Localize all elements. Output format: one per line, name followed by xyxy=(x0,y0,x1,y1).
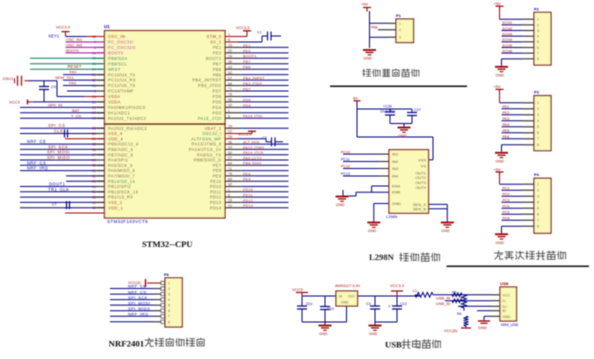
svg-text:NRF_IRQ: NRF_IRQ xyxy=(128,311,148,316)
svg-text:PB6/ADC_5: PB6/ADC_5 xyxy=(108,147,134,152)
svg-text:P4: P4 xyxy=(534,172,540,177)
svg-text:C27: C27 xyxy=(414,108,421,112)
svg-text:1: 1 xyxy=(228,188,230,192)
svg-text:NRF_CE: NRF_CE xyxy=(128,284,146,289)
svg-text:GND: GND xyxy=(341,301,349,305)
svg-text:SEN_B: SEN_B xyxy=(413,206,426,211)
svg-text:P3: P3 xyxy=(534,90,540,95)
svg-text:ECH5: ECH5 xyxy=(503,44,513,48)
svg-text:OUT4: OUT4 xyxy=(415,185,426,190)
svg-text:PD14: PD14 xyxy=(210,205,222,210)
svg-text:GND: GND xyxy=(478,325,487,330)
svg-text:GND: GND xyxy=(336,203,345,207)
svg-text:AMS1117-3.3V: AMS1117-3.3V xyxy=(335,284,361,288)
svg-text:2: 2 xyxy=(168,287,170,291)
svg-text:PA15_JTDI: PA15_JTDI xyxy=(198,116,222,121)
svg-text:15: 15 xyxy=(228,44,232,48)
svg-text:85: 85 xyxy=(228,177,232,181)
svg-text:43: 43 xyxy=(228,65,232,69)
svg-text:ALTFSSN_WP: ALTFSSN_WP xyxy=(191,136,222,141)
svg-text:SPI_MISO: SPI_MISO xyxy=(128,306,150,311)
svg-text:PA6/MISO_6: PA6/MISO_6 xyxy=(108,168,135,173)
svg-text:85: 85 xyxy=(228,98,232,102)
svg-text:C9: C9 xyxy=(51,85,56,89)
svg-text:VDD_4: VDD_4 xyxy=(108,136,123,141)
svg-text:SPI_CS: SPI_CS xyxy=(48,123,65,128)
svg-text:VCC3.3: VCC3.3 xyxy=(390,283,405,288)
svg-text:PC_OSC32O: PC_OSC32O xyxy=(108,45,136,50)
svg-text:PB8/SDIO_D: PB8/SDIO_D xyxy=(194,158,222,163)
svg-text:PE10: PE10 xyxy=(210,179,222,184)
svg-text:PC13/TAMP: PC13/TAMP xyxy=(108,89,134,94)
svg-text:8: 8 xyxy=(228,114,230,118)
svg-text:GND: GND xyxy=(496,159,505,163)
svg-text:GND: GND xyxy=(392,201,401,206)
svg-text:5: 5 xyxy=(537,207,539,211)
svg-text:GND: GND xyxy=(364,57,373,61)
svg-text:PD11: PD11 xyxy=(210,189,222,194)
svg-text:5: 5 xyxy=(537,40,539,44)
svg-text:71: 71 xyxy=(228,167,232,171)
svg-text:CLK: CLK xyxy=(54,129,63,134)
svg-text:GND: GND xyxy=(369,332,378,336)
svg-text:OSC_IN1: OSC_IN1 xyxy=(66,38,82,42)
svg-text:3: 3 xyxy=(537,113,539,117)
svg-text:5V: 5V xyxy=(353,96,358,101)
svg-text:+C26: +C26 xyxy=(383,105,392,109)
svg-text:3: 3 xyxy=(537,195,539,199)
svg-text:PD7: PD7 xyxy=(212,89,221,94)
svg-text:OSC_IN: OSC_IN xyxy=(108,34,125,39)
svg-text:2: 2 xyxy=(537,23,539,27)
svg-text:22u: 22u xyxy=(306,302,312,306)
svg-text:PD13: PD13 xyxy=(243,204,253,208)
svg-text:15: 15 xyxy=(228,124,232,128)
svg-text:6: 6 xyxy=(537,131,539,135)
svg-text:PA13/JTMS_8: PA13/JTMS_8 xyxy=(192,142,222,147)
svg-text:VBAT_1: VBAT_1 xyxy=(204,126,221,131)
svg-text:+5V: +5V xyxy=(361,2,369,7)
svg-text:PB7: PB7 xyxy=(213,61,222,66)
svg-text:BOOT1: BOOT1 xyxy=(243,55,257,59)
svg-text:BOOT0: BOOT0 xyxy=(108,50,124,55)
svg-text:PE5: PE5 xyxy=(503,129,510,133)
svg-text:PB5/ADC12_4: PB5/ADC12_4 xyxy=(108,142,139,147)
svg-text:PC10: PC10 xyxy=(341,150,350,154)
svg-text:NRF_CS: NRF_CS xyxy=(27,160,46,165)
svg-text:64: 64 xyxy=(228,82,232,86)
svg-text:VCC: VCC xyxy=(503,293,511,297)
svg-text:PC2: PC2 xyxy=(503,193,510,197)
svg-text:PA15 JTDI: PA15 JTDI xyxy=(243,115,262,119)
svg-text:OSC_IN2: OSC_IN2 xyxy=(66,43,82,47)
svg-text:RESET: RESET xyxy=(68,64,82,69)
svg-text:VCC5: VCC5 xyxy=(292,287,303,292)
svg-text:PB3_JTDO: PB3_JTDO xyxy=(198,83,222,88)
svg-text:8: 8 xyxy=(537,57,539,61)
svg-text:57: 57 xyxy=(228,156,232,160)
svg-text:1: 1 xyxy=(537,101,539,105)
svg-text:NRF_IRQ: NRF_IRQ xyxy=(27,166,49,171)
svg-text:NRST: NRST xyxy=(108,67,121,72)
svg-text:P6: P6 xyxy=(164,272,170,277)
svg-text:VSSA: VSSA xyxy=(108,94,120,99)
svg-text:PC13: PC13 xyxy=(341,172,350,176)
svg-text:PB7/ADC_6: PB7/ADC_6 xyxy=(108,152,134,157)
svg-text:IN4: IN4 xyxy=(392,174,399,179)
svg-text:ECH4: ECH4 xyxy=(503,38,513,42)
svg-text:PB6: PB6 xyxy=(213,67,222,72)
svg-text:PB4_JNTRST: PB4_JNTRST xyxy=(192,78,221,83)
svg-text:PE1: PE1 xyxy=(243,44,251,48)
svg-text:SPK_IN: SPK_IN xyxy=(48,102,62,107)
svg-text:PE0: PE0 xyxy=(213,50,222,55)
svg-text:C3: C3 xyxy=(262,136,267,140)
svg-text:PD13: PD13 xyxy=(210,200,222,205)
svg-text:PC_OSC32I: PC_OSC32I xyxy=(108,40,134,45)
svg-text:PC5: PC5 xyxy=(503,211,510,215)
svg-text:VS: VS xyxy=(421,163,427,168)
svg-text:2: 2 xyxy=(537,107,539,111)
svg-text:TR2: TR2 xyxy=(69,81,77,86)
svg-text:PE2: PE2 xyxy=(503,111,510,115)
svg-text:R6: R6 xyxy=(457,312,461,316)
svg-text:71: 71 xyxy=(228,87,232,91)
svg-text:2: 2 xyxy=(399,28,401,32)
svg-text:PD12: PD12 xyxy=(210,195,222,200)
svg-text:VSS_1: VSS_1 xyxy=(108,200,123,205)
svg-text:1: 1 xyxy=(537,18,539,22)
svg-text:78: 78 xyxy=(228,93,232,97)
svg-text:IN1: IN1 xyxy=(392,152,399,157)
svg-text:PB8 SDIO: PB8 SDIO xyxy=(243,162,262,166)
svg-text:NRF_CS: NRF_CS xyxy=(128,289,146,294)
svg-text:PE6: PE6 xyxy=(503,135,510,139)
svg-text:PD5: PD5 xyxy=(243,98,251,102)
svg-text:PD10: PD10 xyxy=(210,184,222,189)
svg-text:+5V: +5V xyxy=(494,167,502,172)
svg-text:PA4/SPI1: PA4/SPI1 xyxy=(108,158,129,163)
svg-text:STM_5: STM_5 xyxy=(207,34,222,39)
svg-text:PB5: PB5 xyxy=(213,72,222,77)
svg-text:3: 3 xyxy=(168,293,170,297)
svg-text:GND: GND xyxy=(496,241,505,245)
svg-text:1: 1 xyxy=(537,183,539,187)
svg-text:L298N: L298N xyxy=(369,252,395,262)
svg-text:TR1_CLK: TR1_CLK xyxy=(48,187,69,192)
svg-text:+: + xyxy=(388,304,391,309)
svg-text:GND: GND xyxy=(319,332,328,336)
svg-text:BAT: BAT xyxy=(72,108,80,113)
svg-text:5V_1: 5V_1 xyxy=(211,40,222,45)
svg-text:VCC3.3: VCC3.3 xyxy=(236,26,249,30)
svg-text:NRF2401: NRF2401 xyxy=(109,339,145,349)
svg-text:STM32--CPU: STM32--CPU xyxy=(142,239,193,249)
svg-text:1: 1 xyxy=(168,282,170,286)
svg-text:PC3: PC3 xyxy=(503,199,510,203)
svg-text:57: 57 xyxy=(228,76,232,80)
svg-text:SEW_TX1: SEW_TX1 xyxy=(55,75,74,80)
svg-text:NRF_CE: NRF_CE xyxy=(27,139,46,144)
svg-text:VDD_1: VDD_1 xyxy=(108,205,123,210)
svg-text:7: 7 xyxy=(537,219,539,223)
svg-text:PA0/WKUP/ADC0: PA0/WKUP/ADC0 xyxy=(108,105,146,110)
svg-text:PD4: PD4 xyxy=(212,105,221,110)
svg-text:PA3/U2_RX/ADC3: PA3/U2_RX/ADC3 xyxy=(108,126,147,131)
svg-text:GND: GND xyxy=(368,229,377,233)
svg-text:USB_IN: USB_IN xyxy=(436,295,451,300)
svg-text:8: 8 xyxy=(168,320,170,324)
svg-text:IN3: IN3 xyxy=(392,166,399,171)
svg-text:ECH6: ECH6 xyxy=(503,49,513,53)
svg-text:PD5: PD5 xyxy=(212,100,221,105)
svg-text:50: 50 xyxy=(228,71,232,75)
svg-text:PE1: PE1 xyxy=(213,45,222,50)
svg-text:D+: D+ xyxy=(503,305,508,309)
svg-text:SPI_MOSI: SPI_MOSI xyxy=(128,300,150,305)
svg-text:PA2/U2_TX/ADC2: PA2/U2_TX/ADC2 xyxy=(108,116,147,121)
svg-text:4: 4 xyxy=(537,119,539,123)
svg-text:P2: P2 xyxy=(534,6,540,11)
svg-text:STM32F103VCT6: STM32F103VCT6 xyxy=(107,219,148,224)
svg-text:OSC32_I: OSC32_I xyxy=(202,131,221,136)
svg-text:PA8: PA8 xyxy=(371,25,378,29)
svg-text:T_CS: T_CS xyxy=(71,113,82,118)
svg-text:PB12/SPI2: PB12/SPI2 xyxy=(108,184,132,189)
svg-text:GND: GND xyxy=(503,315,511,319)
svg-text:VCC3: VCC3 xyxy=(9,100,20,105)
svg-text:43: 43 xyxy=(228,146,232,150)
svg-text:22: 22 xyxy=(228,204,232,208)
svg-text:92: 92 xyxy=(228,183,232,187)
svg-text:SPI_MISO: SPI_MISO xyxy=(47,155,70,160)
svg-text:50: 50 xyxy=(228,151,232,155)
svg-text:PA1/ADC1: PA1/ADC1 xyxy=(108,110,131,115)
svg-text:8: 8 xyxy=(228,193,230,197)
svg-text:PE8: PE8 xyxy=(243,172,251,176)
svg-text:PA14/JTCK_1V: PA14/JTCK_1V xyxy=(189,147,222,152)
svg-text:3: 3 xyxy=(399,36,401,40)
svg-text:8: 8 xyxy=(537,225,539,229)
svg-text:PB3 JTDO: PB3 JTDO xyxy=(243,82,262,86)
svg-text:USB: USB xyxy=(385,340,402,350)
svg-text:15: 15 xyxy=(228,199,232,203)
svg-text:OUT: OUT xyxy=(348,295,355,299)
svg-text:4: 4 xyxy=(168,298,170,302)
svg-text:VCC3.3: VCC3.3 xyxy=(56,24,71,29)
svg-text:PE9: PE9 xyxy=(243,178,251,182)
svg-text:PE4: PE4 xyxy=(503,123,510,127)
svg-text:22: 22 xyxy=(228,49,232,53)
svg-text:78: 78 xyxy=(228,172,232,176)
svg-text:PE1: PE1 xyxy=(503,105,510,109)
svg-text:PD6: PD6 xyxy=(212,94,221,99)
svg-text:PE3: PE3 xyxy=(503,117,510,121)
svg-text:SPI_SCK: SPI_SCK xyxy=(48,144,69,149)
svg-text:1: 1 xyxy=(399,22,401,26)
svg-text:+5V: +5V xyxy=(494,1,502,6)
svg-text:PA9/U1_TX: PA9/U1_TX xyxy=(197,152,221,157)
svg-text:VDDA: VDDA xyxy=(108,100,121,105)
svg-text:PC6: PC6 xyxy=(503,217,510,221)
svg-text:6: 6 xyxy=(537,46,539,50)
svg-text:PA9 U1TX: PA9 U1TX xyxy=(243,156,262,160)
svg-text:3: 3 xyxy=(537,29,539,33)
svg-text:PC12/U5_TX: PC12/U5_TX xyxy=(108,83,136,88)
svg-text:PC11: PC11 xyxy=(341,158,350,162)
svg-text:L1: L1 xyxy=(413,289,417,293)
svg-text:PC11/U4_RX: PC11/U4_RX xyxy=(108,78,136,83)
svg-text:C10: C10 xyxy=(327,307,334,311)
svg-text:PC4: PC4 xyxy=(503,205,510,209)
svg-text:PC10/U4_TX: PC10/U4_TX xyxy=(108,72,136,77)
svg-text:PC1: PC1 xyxy=(503,187,510,191)
svg-text:SPI_SCK: SPI_SCK xyxy=(128,295,148,300)
svg-text:PD7: PD7 xyxy=(243,87,251,91)
svg-text:VSS_4: VSS_4 xyxy=(108,131,123,136)
svg-text:DOUT1: DOUT1 xyxy=(49,182,65,187)
svg-text:USB_ID: USB_ID xyxy=(436,301,451,306)
svg-text:PE8: PE8 xyxy=(213,168,222,173)
svg-text:+5V: +5V xyxy=(494,84,502,89)
svg-text:PB8/SDA: PB8/SDA xyxy=(108,56,128,61)
svg-text:PE7: PE7 xyxy=(213,163,222,168)
svg-text:4: 4 xyxy=(537,35,539,39)
svg-text:GND: GND xyxy=(441,229,450,233)
svg-text:64: 64 xyxy=(228,162,232,166)
svg-text:VSS: VSS xyxy=(418,157,426,162)
svg-text:PD4: PD4 xyxy=(243,104,251,108)
svg-text:MINI_USB: MINI_USB xyxy=(501,323,519,327)
svg-text:SPI_MOSI: SPI_MOSI xyxy=(47,150,70,155)
svg-text:PA7/MOSI_7: PA7/MOSI_7 xyxy=(108,174,135,179)
svg-text:PB7: PB7 xyxy=(243,60,251,64)
svg-text:PA14 JTCK: PA14 JTCK xyxy=(243,151,264,155)
svg-text:ENA: ENA xyxy=(392,184,401,189)
svg-text:VCC(5): VCC(5) xyxy=(444,328,458,333)
svg-text:IN2: IN2 xyxy=(392,159,399,164)
svg-text:ECH2: ECH2 xyxy=(503,27,513,31)
svg-text:USB: USB xyxy=(500,281,509,286)
svg-text:BOOT1: BOOT1 xyxy=(206,56,222,61)
svg-text:PD11: PD11 xyxy=(243,194,253,198)
svg-text:92: 92 xyxy=(228,104,232,108)
svg-text:L298N: L298N xyxy=(386,215,397,219)
svg-text:PB13/SCK_13: PB13/SCK_13 xyxy=(108,189,139,194)
svg-text:PB14/SD_14: PB14/SD_14 xyxy=(108,179,136,184)
svg-text:ECH1: ECH1 xyxy=(503,21,513,25)
svg-text:PB6: PB6 xyxy=(243,66,251,70)
svg-text:U1: U1 xyxy=(104,24,110,29)
svg-text:PA13 JTMS: PA13 JTMS xyxy=(243,146,265,150)
svg-text:PD3: PD3 xyxy=(212,110,221,115)
svg-text:6: 6 xyxy=(168,309,170,313)
svg-text:KEY1: KEY1 xyxy=(49,34,60,39)
svg-text:BOOT0: BOOT0 xyxy=(66,49,79,53)
svg-text:PD12: PD12 xyxy=(243,199,253,203)
svg-text:PA5/SCK_5: PA5/SCK_5 xyxy=(108,163,133,168)
svg-text:7: 7 xyxy=(168,315,170,319)
svg-text:PB4 JNRST: PB4 JNRST xyxy=(243,77,265,81)
svg-text:C1: C1 xyxy=(257,31,262,35)
svg-text:5: 5 xyxy=(537,125,539,129)
svg-text:C4: C4 xyxy=(366,302,371,306)
svg-text:5: 5 xyxy=(168,304,170,308)
svg-text:2: 2 xyxy=(537,189,539,193)
svg-text:29: 29 xyxy=(228,55,232,59)
svg-text:C7: C7 xyxy=(52,203,57,207)
svg-text:6: 6 xyxy=(537,213,539,217)
svg-text:PB1/U3_RX: PB1/U3_RX xyxy=(108,195,133,200)
svg-text:7: 7 xyxy=(537,52,539,56)
svg-text:PC12: PC12 xyxy=(341,165,350,169)
svg-text:GND: GND xyxy=(496,73,505,77)
svg-text:ID: ID xyxy=(503,309,507,313)
svg-text:TR1: TR1 xyxy=(69,70,77,75)
svg-text:8: 8 xyxy=(537,143,539,147)
svg-text:36: 36 xyxy=(228,60,232,64)
svg-text:PD10: PD10 xyxy=(243,188,253,192)
svg-text:ALT SSN: ALT SSN xyxy=(243,141,260,145)
svg-text:P1: P1 xyxy=(396,13,402,18)
svg-text:1: 1 xyxy=(228,109,230,113)
svg-text:36: 36 xyxy=(228,140,232,144)
svg-text:PB9/SCL: PB9/SCL xyxy=(108,61,128,66)
svg-text:OSC1: OSC1 xyxy=(3,76,15,81)
svg-text:ECH3: ECH3 xyxy=(503,32,513,36)
svg-text:GND: GND xyxy=(398,134,407,138)
svg-text:PE9: PE9 xyxy=(213,174,222,179)
svg-text:ENB: ENB xyxy=(392,190,401,195)
svg-text:PE0: PE0 xyxy=(243,49,251,53)
svg-text:7: 7 xyxy=(537,137,539,141)
svg-text:10uF/25V: 10uF/25V xyxy=(380,110,395,114)
svg-text:C12: C12 xyxy=(400,302,407,306)
svg-text:4: 4 xyxy=(537,201,539,205)
svg-text:VCC3.3: VCC3.3 xyxy=(238,132,251,136)
